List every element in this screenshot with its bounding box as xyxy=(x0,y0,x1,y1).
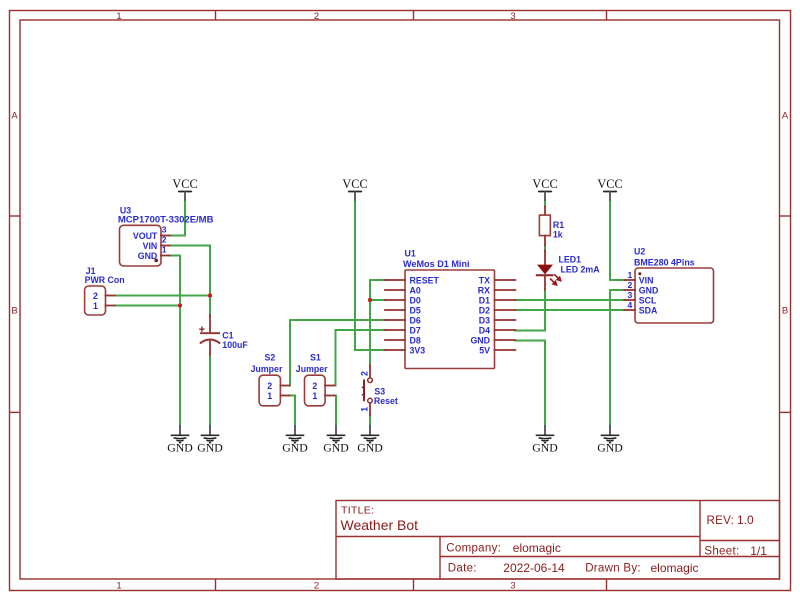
U2 pin 3 stub xyxy=(624,299,635,301)
GND symbol 6 xyxy=(532,425,558,454)
svg-text:VCC: VCC xyxy=(172,177,197,191)
svg-text:D7: D7 xyxy=(410,325,421,335)
wire C1 bottom to GND xyxy=(209,355,211,425)
svg-text:Jumper: Jumper xyxy=(251,364,283,374)
VCC symbol 4 xyxy=(597,177,622,201)
svg-text:GND: GND xyxy=(639,286,659,296)
wire U1 D7 to S1 pin2 xyxy=(336,330,386,386)
svg-text:GND: GND xyxy=(357,441,383,455)
wire VCC4 to U2 VIN xyxy=(610,201,624,281)
resistor R1 xyxy=(539,207,550,246)
svg-text:S1: S1 xyxy=(310,353,321,363)
GND symbol 4 xyxy=(323,425,349,454)
svg-text:VIN: VIN xyxy=(639,276,654,286)
svg-text:Drawn By:: Drawn By: xyxy=(585,563,641,575)
svg-text:1: 1 xyxy=(359,407,369,412)
wire VCC3 to R1 top xyxy=(544,201,546,207)
svg-text:R1: R1 xyxy=(553,220,564,230)
svg-text:GND: GND xyxy=(532,441,558,455)
svg-text:LED 2mA: LED 2mA xyxy=(561,265,601,275)
U1 right pin stubs xyxy=(495,280,516,350)
LED1 light arrows xyxy=(550,274,561,285)
svg-text:3V3: 3V3 xyxy=(410,345,426,355)
svg-text:RX: RX xyxy=(478,285,490,295)
TITLEBLOCK xyxy=(336,501,780,580)
title block outline xyxy=(336,501,780,580)
junction D0 reset node xyxy=(368,298,372,302)
S2 pin 2 stub xyxy=(280,385,289,387)
module U1 body xyxy=(405,270,495,369)
svg-text:1: 1 xyxy=(628,270,633,280)
bottom tick x=215 xyxy=(215,579,217,591)
svg-text:1: 1 xyxy=(93,301,98,311)
svg-text:S2: S2 xyxy=(265,353,276,363)
wire U3 VIN to C1 top node xyxy=(170,246,210,316)
wire U2 GND down to GND xyxy=(610,290,624,425)
GND symbol 3 xyxy=(282,425,308,454)
bottom tick x=606 xyxy=(606,579,608,591)
svg-text:Jumper: Jumper xyxy=(296,364,328,374)
svg-text:LED1: LED1 xyxy=(559,255,582,265)
svg-text:1: 1 xyxy=(267,391,272,401)
sensor U2 body xyxy=(635,268,714,323)
svg-text:U2: U2 xyxy=(634,247,645,257)
vertical divider left xyxy=(439,537,441,580)
GND symbol 7 xyxy=(597,425,623,454)
svg-text:GND: GND xyxy=(323,441,349,455)
svg-text:1.0: 1.0 xyxy=(737,513,754,527)
wire LED1 cathode to U1 D4 xyxy=(515,290,545,331)
svg-text:TITLE:: TITLE: xyxy=(341,505,374,517)
svg-text:2: 2 xyxy=(93,291,98,301)
svg-text:D6: D6 xyxy=(410,315,421,325)
svg-text:2: 2 xyxy=(314,11,319,22)
connector J1 body xyxy=(85,286,106,315)
svg-text:Sheet:: Sheet: xyxy=(704,546,739,558)
wire S1 pin1 to GND xyxy=(334,396,336,426)
svg-text:GND: GND xyxy=(597,441,623,455)
svg-text:A0: A0 xyxy=(410,285,421,295)
left tick y=216 xyxy=(10,215,21,217)
svg-text:D8: D8 xyxy=(410,335,421,345)
svg-text:2: 2 xyxy=(314,581,319,592)
svg-text:RESET: RESET xyxy=(410,275,440,285)
svg-text:U1: U1 xyxy=(405,249,416,259)
U2 pin 1 stub xyxy=(624,279,635,281)
svg-text:B: B xyxy=(11,306,17,317)
VCC symbol 1 xyxy=(172,177,197,201)
svg-text:C1: C1 xyxy=(222,331,233,341)
svg-text:1: 1 xyxy=(116,581,121,592)
J1 pin 2 stub xyxy=(106,295,115,297)
svg-text:GND: GND xyxy=(138,251,158,261)
svg-text:Weather Bot: Weather Bot xyxy=(341,517,419,533)
svg-text:4: 4 xyxy=(628,300,633,310)
U2 pin 4 stub xyxy=(624,309,635,311)
wire S2 pin1 to GND xyxy=(290,396,296,426)
svg-text:SCL: SCL xyxy=(639,296,657,306)
U1 left pin stubs xyxy=(385,280,405,350)
bottom tick x=413 xyxy=(413,579,415,591)
svg-text:SDA: SDA xyxy=(639,306,658,316)
svg-text:2: 2 xyxy=(359,371,369,376)
wire VCC1 to U3 VOUT xyxy=(170,201,185,236)
svg-text:1: 1 xyxy=(116,11,121,22)
svg-text:D2: D2 xyxy=(479,305,490,315)
wire J1 pin1 to GND node xyxy=(115,305,181,307)
svg-text:Reset: Reset xyxy=(374,396,398,406)
S2 pin 1 stub xyxy=(280,395,289,397)
U3 pin 3 VOUT stub xyxy=(161,235,170,237)
wire R1 bottom to LED1 anode xyxy=(544,245,546,250)
svg-text:GND: GND xyxy=(167,441,193,455)
wire VCC2 to U1 3V3 xyxy=(355,201,385,351)
svg-text:D5: D5 xyxy=(410,305,421,315)
svg-text:BME280 4Pins: BME280 4Pins xyxy=(634,258,695,268)
S1 pin 2 stub xyxy=(325,385,334,387)
svg-text:D1: D1 xyxy=(479,295,490,305)
svg-text:2022-06-14: 2022-06-14 xyxy=(503,561,565,575)
svg-text:3: 3 xyxy=(510,581,515,592)
right tick y=216 xyxy=(780,215,791,217)
pushbutton S3 xyxy=(362,365,373,415)
svg-text:VCC: VCC xyxy=(532,177,557,191)
svg-text:100uF: 100uF xyxy=(222,340,248,350)
svg-text:2: 2 xyxy=(267,381,272,391)
wire U1 D1 to U2 SCL xyxy=(515,299,624,301)
top tick x=215 xyxy=(215,11,217,21)
svg-text:D4: D4 xyxy=(479,325,490,335)
regulator U3 body xyxy=(120,225,162,266)
svg-text:5V: 5V xyxy=(479,345,490,355)
svg-text:TX: TX xyxy=(479,275,490,285)
capacitor C1 xyxy=(199,315,220,355)
wire J1 pin2 to VIN node xyxy=(115,295,211,297)
WIRES xyxy=(115,201,625,426)
rev row divider xyxy=(700,540,780,542)
svg-text:1/1: 1/1 xyxy=(750,544,767,558)
svg-text:GND: GND xyxy=(282,441,308,455)
svg-text:D3: D3 xyxy=(479,315,490,325)
wire U1 D6 to S2 pin2 xyxy=(290,320,385,386)
S1 pin 1 stub xyxy=(325,395,334,397)
svg-text:GND: GND xyxy=(197,441,223,455)
jumper S1 body xyxy=(305,375,326,406)
svg-text:1: 1 xyxy=(312,391,317,401)
U3 pin 2 VIN stub xyxy=(161,245,170,247)
wire U1 D2 to U2 SDA xyxy=(515,309,624,311)
vertical divider rev column xyxy=(699,501,701,557)
svg-text:elomagic: elomagic xyxy=(513,541,561,555)
U3 pin 1 GND stub xyxy=(161,255,170,257)
GND symbol 1 xyxy=(167,425,193,454)
svg-text:Date:: Date: xyxy=(448,563,477,575)
wire U1 RESET down to S3 xyxy=(370,280,385,365)
svg-text:2: 2 xyxy=(628,280,633,290)
junction VIN node xyxy=(208,294,212,298)
wire U3 GND down to GND xyxy=(170,256,180,426)
svg-text:1k: 1k xyxy=(553,230,563,240)
wire U1 GND pin down to GND xyxy=(515,341,545,426)
svg-text:2: 2 xyxy=(312,381,317,391)
svg-text:A: A xyxy=(782,111,789,122)
svg-text:3: 3 xyxy=(628,290,633,300)
left tick y=412 xyxy=(10,411,21,413)
svg-text:VIN: VIN xyxy=(143,241,158,251)
svg-text:2: 2 xyxy=(162,235,167,245)
svg-text:D0: D0 xyxy=(410,295,421,305)
svg-text:Company:: Company: xyxy=(446,543,501,555)
svg-text:B: B xyxy=(782,306,788,317)
svg-text:elomagic: elomagic xyxy=(651,561,699,575)
junction GND node J1 xyxy=(178,304,182,308)
svg-text:WeMos D1 Mini: WeMos D1 Mini xyxy=(403,259,470,269)
svg-text:3: 3 xyxy=(162,225,167,235)
svg-text:PWR Con: PWR Con xyxy=(85,275,125,285)
wire S3 bottom to GND xyxy=(369,415,371,425)
company row divider xyxy=(440,556,780,558)
VCC symbol 2 xyxy=(342,177,367,201)
GND symbol 2 xyxy=(197,425,223,454)
LED1 diode xyxy=(536,251,554,290)
VCC symbol 3 xyxy=(532,177,557,201)
svg-text:GND: GND xyxy=(470,335,490,345)
J1 pin 1 stub xyxy=(106,305,115,307)
title row divider xyxy=(336,536,700,538)
svg-text:VOUT: VOUT xyxy=(133,231,158,241)
svg-text:A: A xyxy=(11,111,18,122)
top tick x=606 xyxy=(606,11,608,21)
jumper S2 body xyxy=(259,375,280,406)
U2 pin 2 stub xyxy=(624,289,635,291)
top tick x=413 xyxy=(413,11,415,21)
svg-text:VCC: VCC xyxy=(342,177,367,191)
svg-text:VCC: VCC xyxy=(597,177,622,191)
GND symbol 5 xyxy=(357,425,383,454)
wire U1 D0 tap to reset net xyxy=(370,299,385,301)
POWER xyxy=(167,177,623,455)
right tick y=412 xyxy=(780,411,791,413)
svg-text:1: 1 xyxy=(162,245,167,255)
svg-text:3: 3 xyxy=(510,11,515,22)
svg-text:REV:: REV: xyxy=(707,515,735,527)
